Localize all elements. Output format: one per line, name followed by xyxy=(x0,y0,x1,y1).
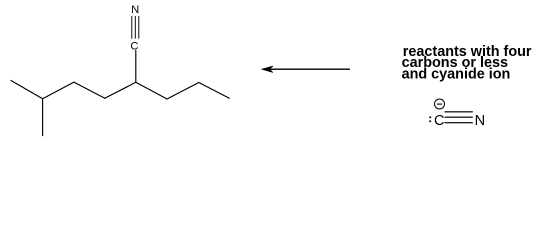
bond C7-C6 xyxy=(43,82,74,99)
svg-text:N: N xyxy=(131,4,139,16)
minus sign inside circle xyxy=(437,103,442,105)
triple bond C#N (three horizontal lines) xyxy=(445,112,473,123)
arrow shaft xyxy=(265,68,350,70)
svg-text:C: C xyxy=(434,113,445,129)
bond C5-C4 xyxy=(105,82,136,98)
cyanide ion xyxy=(429,99,485,129)
svg-text:N: N xyxy=(475,113,486,129)
arrowhead xyxy=(262,66,273,72)
triple bond C#N (three vertical lines) xyxy=(132,16,139,39)
reaction arrow (pointing left) xyxy=(262,66,350,72)
svg-text:and cyanide ion: and cyanide ion xyxy=(402,66,511,82)
bond C3-C2 xyxy=(167,83,199,100)
bond C8-C7 (left methyl to CH) xyxy=(11,81,43,99)
nitrile product skeleton xyxy=(11,50,229,135)
bond C4-CN carbon (vertical) xyxy=(135,50,137,82)
svg-text:C: C xyxy=(130,41,138,53)
minus charge circle xyxy=(435,99,445,109)
bond C4-C3 xyxy=(136,82,167,99)
lone pair dots on carbon xyxy=(429,116,431,118)
bond C2-C1 (right propyl end) xyxy=(199,83,230,99)
bond C6-C5 xyxy=(74,82,105,98)
bond C7-methyl (vertical branch) xyxy=(42,99,44,136)
caption text: reactants with four carbons or less and cyanide ion xyxy=(402,44,532,83)
